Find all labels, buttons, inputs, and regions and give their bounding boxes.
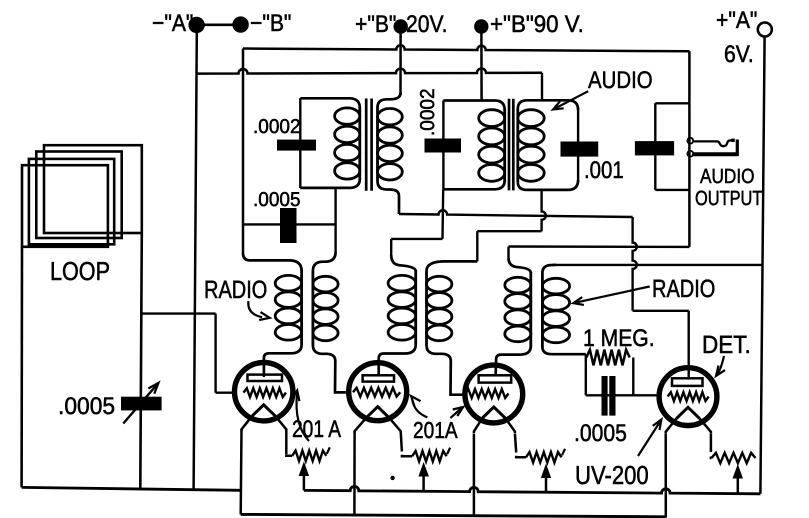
svg-text:.0005: .0005 [574,420,627,447]
svg-text:.001: .001 [584,157,624,184]
svg-text:1 MEG.: 1 MEG. [583,325,655,352]
svg-text:UV-200: UV-200 [575,460,649,490]
svg-text:20V.: 20V. [406,11,448,38]
svg-text:+"B": +"B" [355,11,396,38]
svg-text:+"B"90 V.: +"B"90 V. [490,11,584,38]
svg-text:−"A": −"A" [152,10,193,37]
svg-text:LOOP: LOOP [50,256,110,286]
svg-text:201A: 201A [413,417,458,443]
svg-text:DET.: DET. [702,331,751,359]
svg-text:AUDIO: AUDIO [588,67,653,94]
svg-text:RADIO: RADIO [652,275,715,303]
svg-text:.0005: .0005 [58,393,115,420]
svg-text:+"A": +"A" [716,7,757,34]
svg-text:201 A: 201 A [292,416,341,443]
svg-text:OUTPUT: OUTPUT [695,187,763,210]
svg-text:.0002: .0002 [253,116,301,138]
svg-text:−"B": −"B" [250,10,291,37]
svg-text:AUDIO: AUDIO [700,165,755,188]
svg-text:.0002: .0002 [417,88,439,136]
svg-text:6V.: 6V. [724,41,754,68]
svg-text:RADIO: RADIO [204,276,267,304]
svg-text:.0005: .0005 [253,189,301,211]
